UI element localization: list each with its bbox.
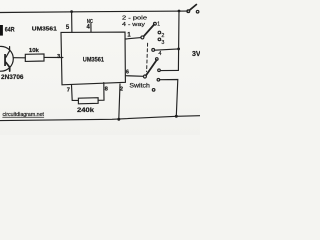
wire pin 7 lead xyxy=(72,85,79,101)
svg-text:2 - pole: 2 - pole xyxy=(122,16,147,22)
wire pole B contact 3 to ground rail xyxy=(160,80,178,117)
node junction ground/right branch xyxy=(175,115,178,118)
svg-text:circuitdiagram.net: circuitdiagram.net xyxy=(3,112,45,118)
op-amp U1 UM3561 IC body xyxy=(61,32,125,85)
wire pin 6 to pole B pivot xyxy=(126,75,144,78)
transistor Q1 2N3706 circle xyxy=(0,46,13,71)
switch pole B contact 1 xyxy=(156,58,159,61)
switch pole A contact 4 xyxy=(152,49,155,52)
wire transistor base to 10k xyxy=(13,57,25,59)
switch pole B pivot xyxy=(143,75,146,78)
node junction contact4 pole A xyxy=(177,48,180,51)
wire top V+ rail xyxy=(0,11,188,12)
wire pin 5 stub xyxy=(71,12,73,33)
switch pole B contact 2 xyxy=(158,69,161,72)
svg-text:3V: 3V xyxy=(192,51,200,58)
svg-text:64R: 64R xyxy=(5,27,15,34)
svg-text:Switch: Switch xyxy=(129,83,150,89)
switch pole B contact 3 xyxy=(157,79,160,82)
transistor Q1 base bar xyxy=(4,54,6,66)
svg-text:1: 1 xyxy=(127,32,131,39)
node junction pin2/ground xyxy=(117,118,120,121)
switch pole B lever xyxy=(146,60,157,75)
svg-text:2N3706: 2N3706 xyxy=(1,74,24,81)
resistor R2 240k body xyxy=(78,98,98,104)
switch pole A lever xyxy=(144,25,154,37)
svg-text:2: 2 xyxy=(161,33,164,39)
svg-text:3: 3 xyxy=(161,40,164,46)
switch pole A contact 1 xyxy=(154,22,157,25)
wire 10k to pin 3 xyxy=(44,56,63,58)
switch pole A pivot xyxy=(141,36,144,39)
wire pin 1 to pole A pivot xyxy=(125,38,141,39)
transistor Q1 emitter xyxy=(6,62,10,71)
svg-text:7: 7 xyxy=(67,88,70,94)
wire pin 2 to ground xyxy=(119,84,120,119)
svg-text:UM3561: UM3561 xyxy=(32,27,58,33)
wire pin 4 stub NC xyxy=(90,24,92,32)
mechanical link dashed xyxy=(147,43,148,71)
switch pole A contact 3 xyxy=(158,38,161,41)
svg-text:10k: 10k xyxy=(29,48,40,54)
svg-text:1: 1 xyxy=(157,22,160,28)
switch S1 lever xyxy=(190,5,197,11)
resistor R1 10k body xyxy=(25,54,44,62)
svg-text:UM3561: UM3561 xyxy=(83,57,105,64)
speaker LS1 64R magnet xyxy=(0,25,3,36)
wire right V+ rail xyxy=(177,11,180,70)
switch S1 contact right xyxy=(196,10,199,13)
wire bottom ground rail xyxy=(0,116,200,121)
switch pole B contact 4 xyxy=(152,89,155,92)
wire pole A contact 4 to V+ rail xyxy=(155,49,179,50)
node junction right rail/top rail xyxy=(178,10,181,13)
node junction pin5/top rail xyxy=(70,10,73,13)
wire pole B contact 2 to V+ rail xyxy=(160,69,178,71)
svg-text:6: 6 xyxy=(126,69,129,75)
switch pole A contact 2 xyxy=(158,31,161,34)
switch S1 on/off contact left xyxy=(187,10,190,13)
wire pin 8 lead xyxy=(98,83,104,101)
svg-text:4 - way: 4 - way xyxy=(122,22,145,28)
svg-text:2: 2 xyxy=(120,87,123,93)
transistor Q1 collector xyxy=(6,47,10,58)
svg-text:240k: 240k xyxy=(77,107,95,114)
